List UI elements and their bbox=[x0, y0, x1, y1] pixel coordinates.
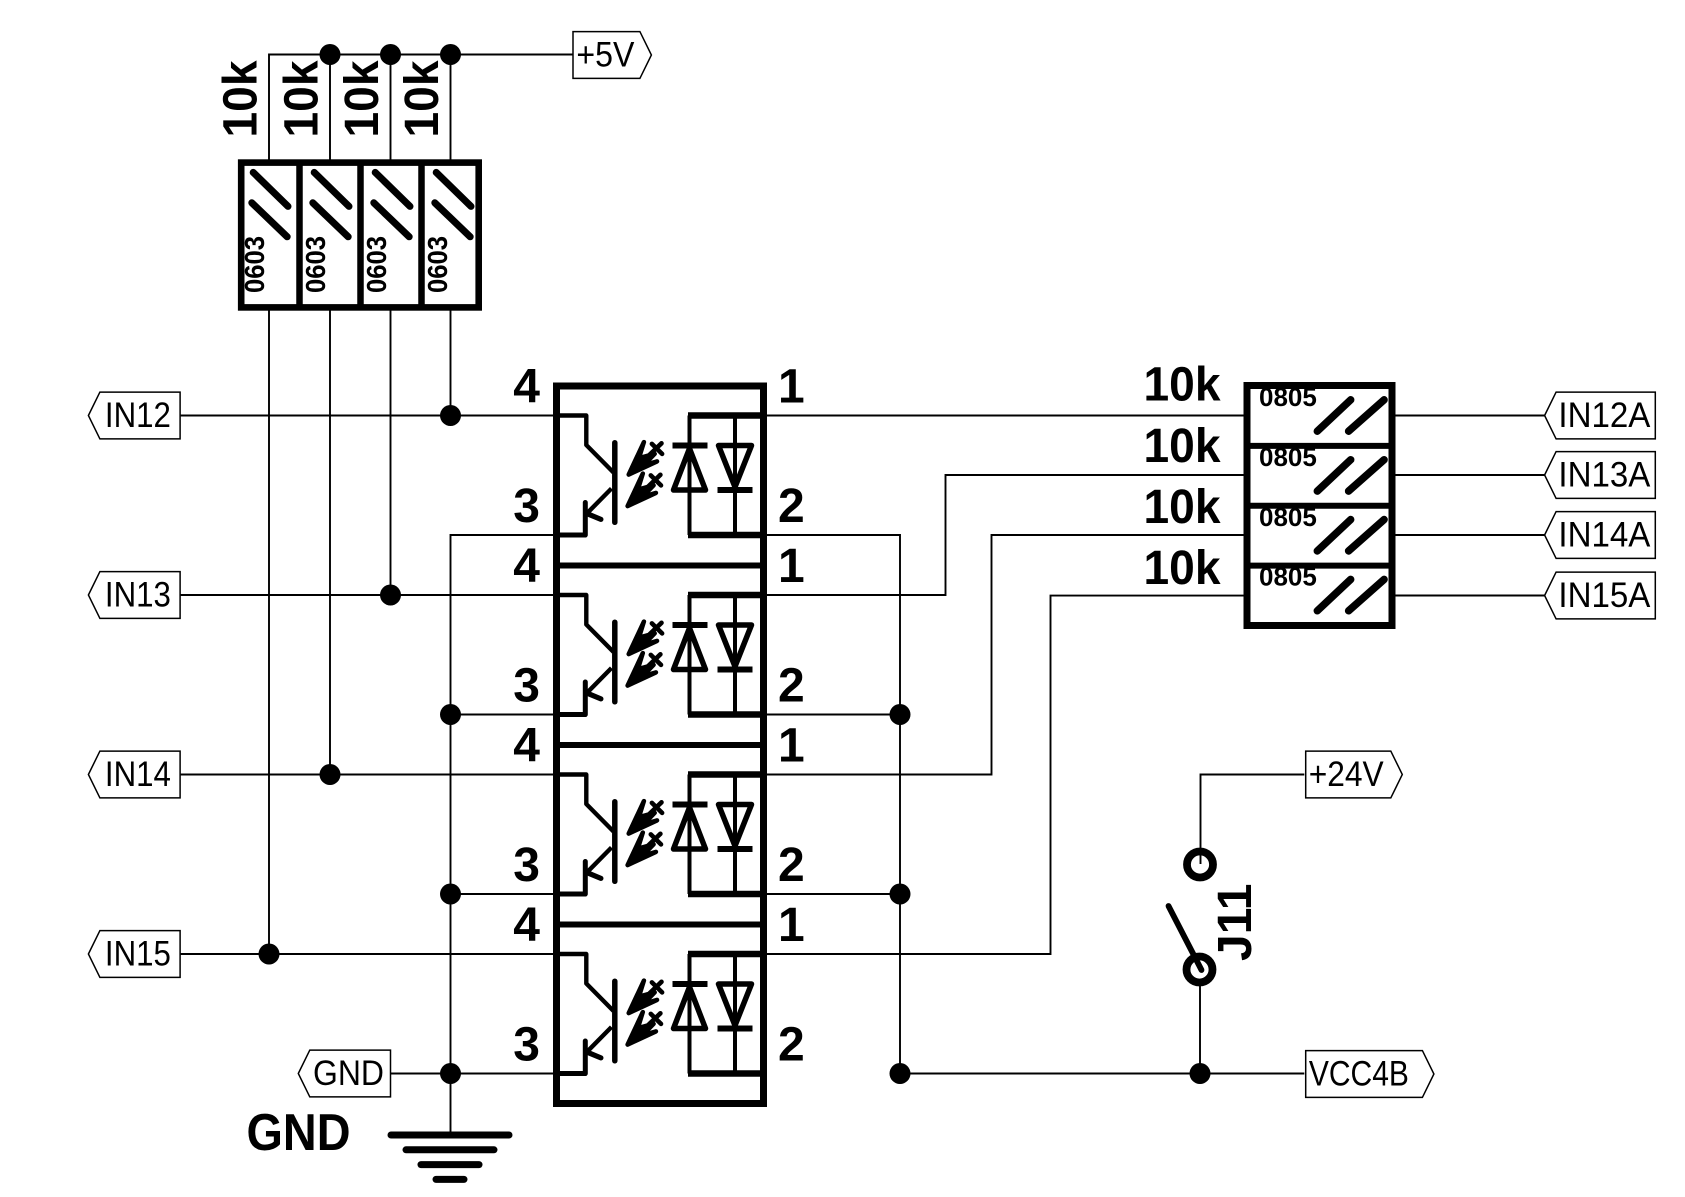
resistor network RN2 box (0805 x4) bbox=[1247, 386, 1392, 626]
resistor RN1a 10k 0603 bbox=[239, 172, 288, 293]
wire opto pin1 ch2 to RN2b bbox=[767, 475, 1244, 595]
svg-text:IN15: IN15 bbox=[105, 935, 171, 974]
resistor RN1c 10k 0603 bbox=[361, 172, 410, 293]
svg-text:10k: 10k bbox=[1144, 481, 1221, 534]
svg-text:IN13A: IN13A bbox=[1558, 456, 1651, 495]
opto divider 1 bbox=[560, 563, 764, 569]
flag IN13 bbox=[88, 572, 180, 619]
flag VCC4B bbox=[1306, 1051, 1434, 1098]
wire GND flag row bbox=[391, 1073, 553, 1075]
svg-text:GND: GND bbox=[247, 1104, 351, 1162]
svg-text:IN14: IN14 bbox=[105, 755, 171, 794]
flag IN15 bbox=[88, 931, 180, 978]
wire IN13 to opto pin 4 bbox=[181, 594, 553, 596]
RN2 divider 2 bbox=[1247, 503, 1392, 509]
flag IN12A bbox=[1545, 392, 1656, 439]
wire resistor a bottom to IN15 row bbox=[268, 310, 270, 954]
svg-text:VCC4B: VCC4B bbox=[1309, 1055, 1409, 1094]
resistor RN1b 10k 0603 bbox=[300, 172, 349, 293]
svg-text:J11: J11 bbox=[1209, 884, 1262, 961]
wire opto pin1 ch3 to RN2c bbox=[767, 535, 1244, 775]
junction dot gnd bus ch3 bbox=[440, 884, 461, 905]
junction dot pin2 bus ch2 bbox=[890, 704, 911, 725]
junction dot pin2 bus ch3 bbox=[890, 884, 911, 905]
wire opto pin3 ch3 bbox=[451, 893, 554, 895]
svg-text:10k: 10k bbox=[1144, 542, 1221, 595]
wire opto pin2 ch3 bbox=[767, 893, 900, 895]
wire RN2b to IN13A bbox=[1396, 474, 1545, 476]
flag IN15A bbox=[1545, 572, 1656, 619]
wire opto pin2 ch2 bbox=[767, 714, 900, 716]
RN1 divider 3 bbox=[418, 163, 425, 308]
flag IN12 bbox=[88, 392, 180, 439]
wire resistor d bottom to IN12 row bbox=[450, 310, 452, 416]
junction dot rail c bbox=[380, 44, 401, 65]
optocoupler channel 4 bbox=[513, 899, 804, 1074]
wire +24V to J11 bbox=[1201, 775, 1305, 865]
resistor RN1d 10k 0603 bbox=[422, 172, 471, 293]
resistor RN2c 10k 0805 bbox=[1259, 502, 1384, 551]
svg-text:IN12A: IN12A bbox=[1558, 396, 1651, 435]
flag +24V bbox=[1306, 751, 1403, 798]
RN2 divider 3 bbox=[1247, 563, 1392, 569]
resistor network RN1 box (0603 x4) bbox=[241, 163, 479, 308]
wire +5V rail bbox=[269, 55, 573, 161]
svg-text:IN15A: IN15A bbox=[1558, 576, 1651, 615]
svg-text:10k: 10k bbox=[215, 60, 268, 137]
svg-text:10k: 10k bbox=[1144, 420, 1221, 473]
resistor RN2b 10k 0805 bbox=[1259, 442, 1384, 491]
wire IN15 to opto pin 4 bbox=[181, 953, 553, 955]
wire IN12 to opto pin 4 bbox=[181, 415, 553, 417]
optocoupler channel 2 bbox=[513, 540, 804, 715]
optocoupler channel 3 bbox=[513, 720, 804, 895]
wire RN2c to IN14A bbox=[1396, 534, 1545, 536]
jumper J11 top contact bbox=[1187, 852, 1213, 878]
resistor RN2d 10k 0805 bbox=[1259, 562, 1384, 611]
svg-text:IN13: IN13 bbox=[105, 576, 171, 615]
junction dot IN13 bbox=[380, 585, 401, 606]
resistor RN2a 10k 0805 bbox=[1259, 382, 1384, 431]
opto divider 2 bbox=[560, 742, 764, 748]
optocoupler block box bbox=[557, 386, 764, 1104]
wire opto pin2 bus bbox=[767, 535, 900, 1074]
RN1 divider 1 bbox=[296, 163, 303, 308]
wire opto pin1 ch4 to RN2d bbox=[767, 596, 1244, 954]
wire opto pin1 ch1 to RN2a bbox=[767, 415, 1244, 417]
wire J11 to VCC4B row bbox=[1199, 985, 1201, 1074]
svg-text:10k: 10k bbox=[336, 60, 389, 137]
wire GND bus vertical bbox=[451, 535, 554, 1132]
opto divider 3 bbox=[560, 922, 764, 928]
jumper J11 bottom contact bbox=[1187, 957, 1213, 983]
svg-text:GND: GND bbox=[313, 1054, 384, 1093]
wire resistor b bottom to IN14 row bbox=[329, 310, 331, 775]
flag IN14A bbox=[1545, 512, 1656, 559]
wire resistor c bottom to IN13 row bbox=[390, 310, 392, 595]
RN1 divider 2 bbox=[357, 163, 364, 308]
svg-text:+5V: +5V bbox=[576, 36, 635, 75]
svg-text:IN12: IN12 bbox=[105, 396, 171, 435]
junction dot gnd row bbox=[440, 1063, 461, 1084]
wire opto pin3 ch2 bbox=[451, 714, 554, 716]
svg-text:10k: 10k bbox=[1144, 359, 1221, 412]
jumper J11 lever bbox=[1169, 906, 1202, 970]
wire VCC4B row bbox=[900, 1073, 1304, 1075]
optocoupler channel 1 bbox=[513, 361, 804, 536]
ground symbol bbox=[391, 1135, 509, 1179]
junction dot rail d bbox=[440, 44, 461, 65]
svg-text:+24V: +24V bbox=[1309, 755, 1385, 794]
junction dot pin2 bus vcc row bbox=[890, 1063, 911, 1084]
flag +5V bbox=[573, 32, 651, 79]
svg-text:10k: 10k bbox=[396, 60, 449, 137]
wire IN14 to opto pin 4 bbox=[181, 774, 553, 776]
wire RN2d to IN15A bbox=[1396, 595, 1545, 597]
junction dot gnd bus ch2 bbox=[440, 704, 461, 725]
wire RN2a to IN12A bbox=[1396, 415, 1545, 417]
flag IN13A bbox=[1545, 452, 1656, 499]
junction dot IN12 bbox=[440, 405, 461, 426]
svg-text:10k: 10k bbox=[276, 60, 329, 137]
RN2 divider 1 bbox=[1247, 443, 1392, 449]
junction dot IN14 bbox=[320, 764, 341, 785]
flag GND bbox=[298, 1050, 390, 1097]
junction dot J11 vcc row bbox=[1190, 1063, 1211, 1084]
junction dot rail b bbox=[320, 44, 341, 65]
svg-text:IN14A: IN14A bbox=[1558, 516, 1651, 555]
junction dot IN15 bbox=[259, 944, 280, 965]
flag IN14 bbox=[88, 751, 180, 798]
